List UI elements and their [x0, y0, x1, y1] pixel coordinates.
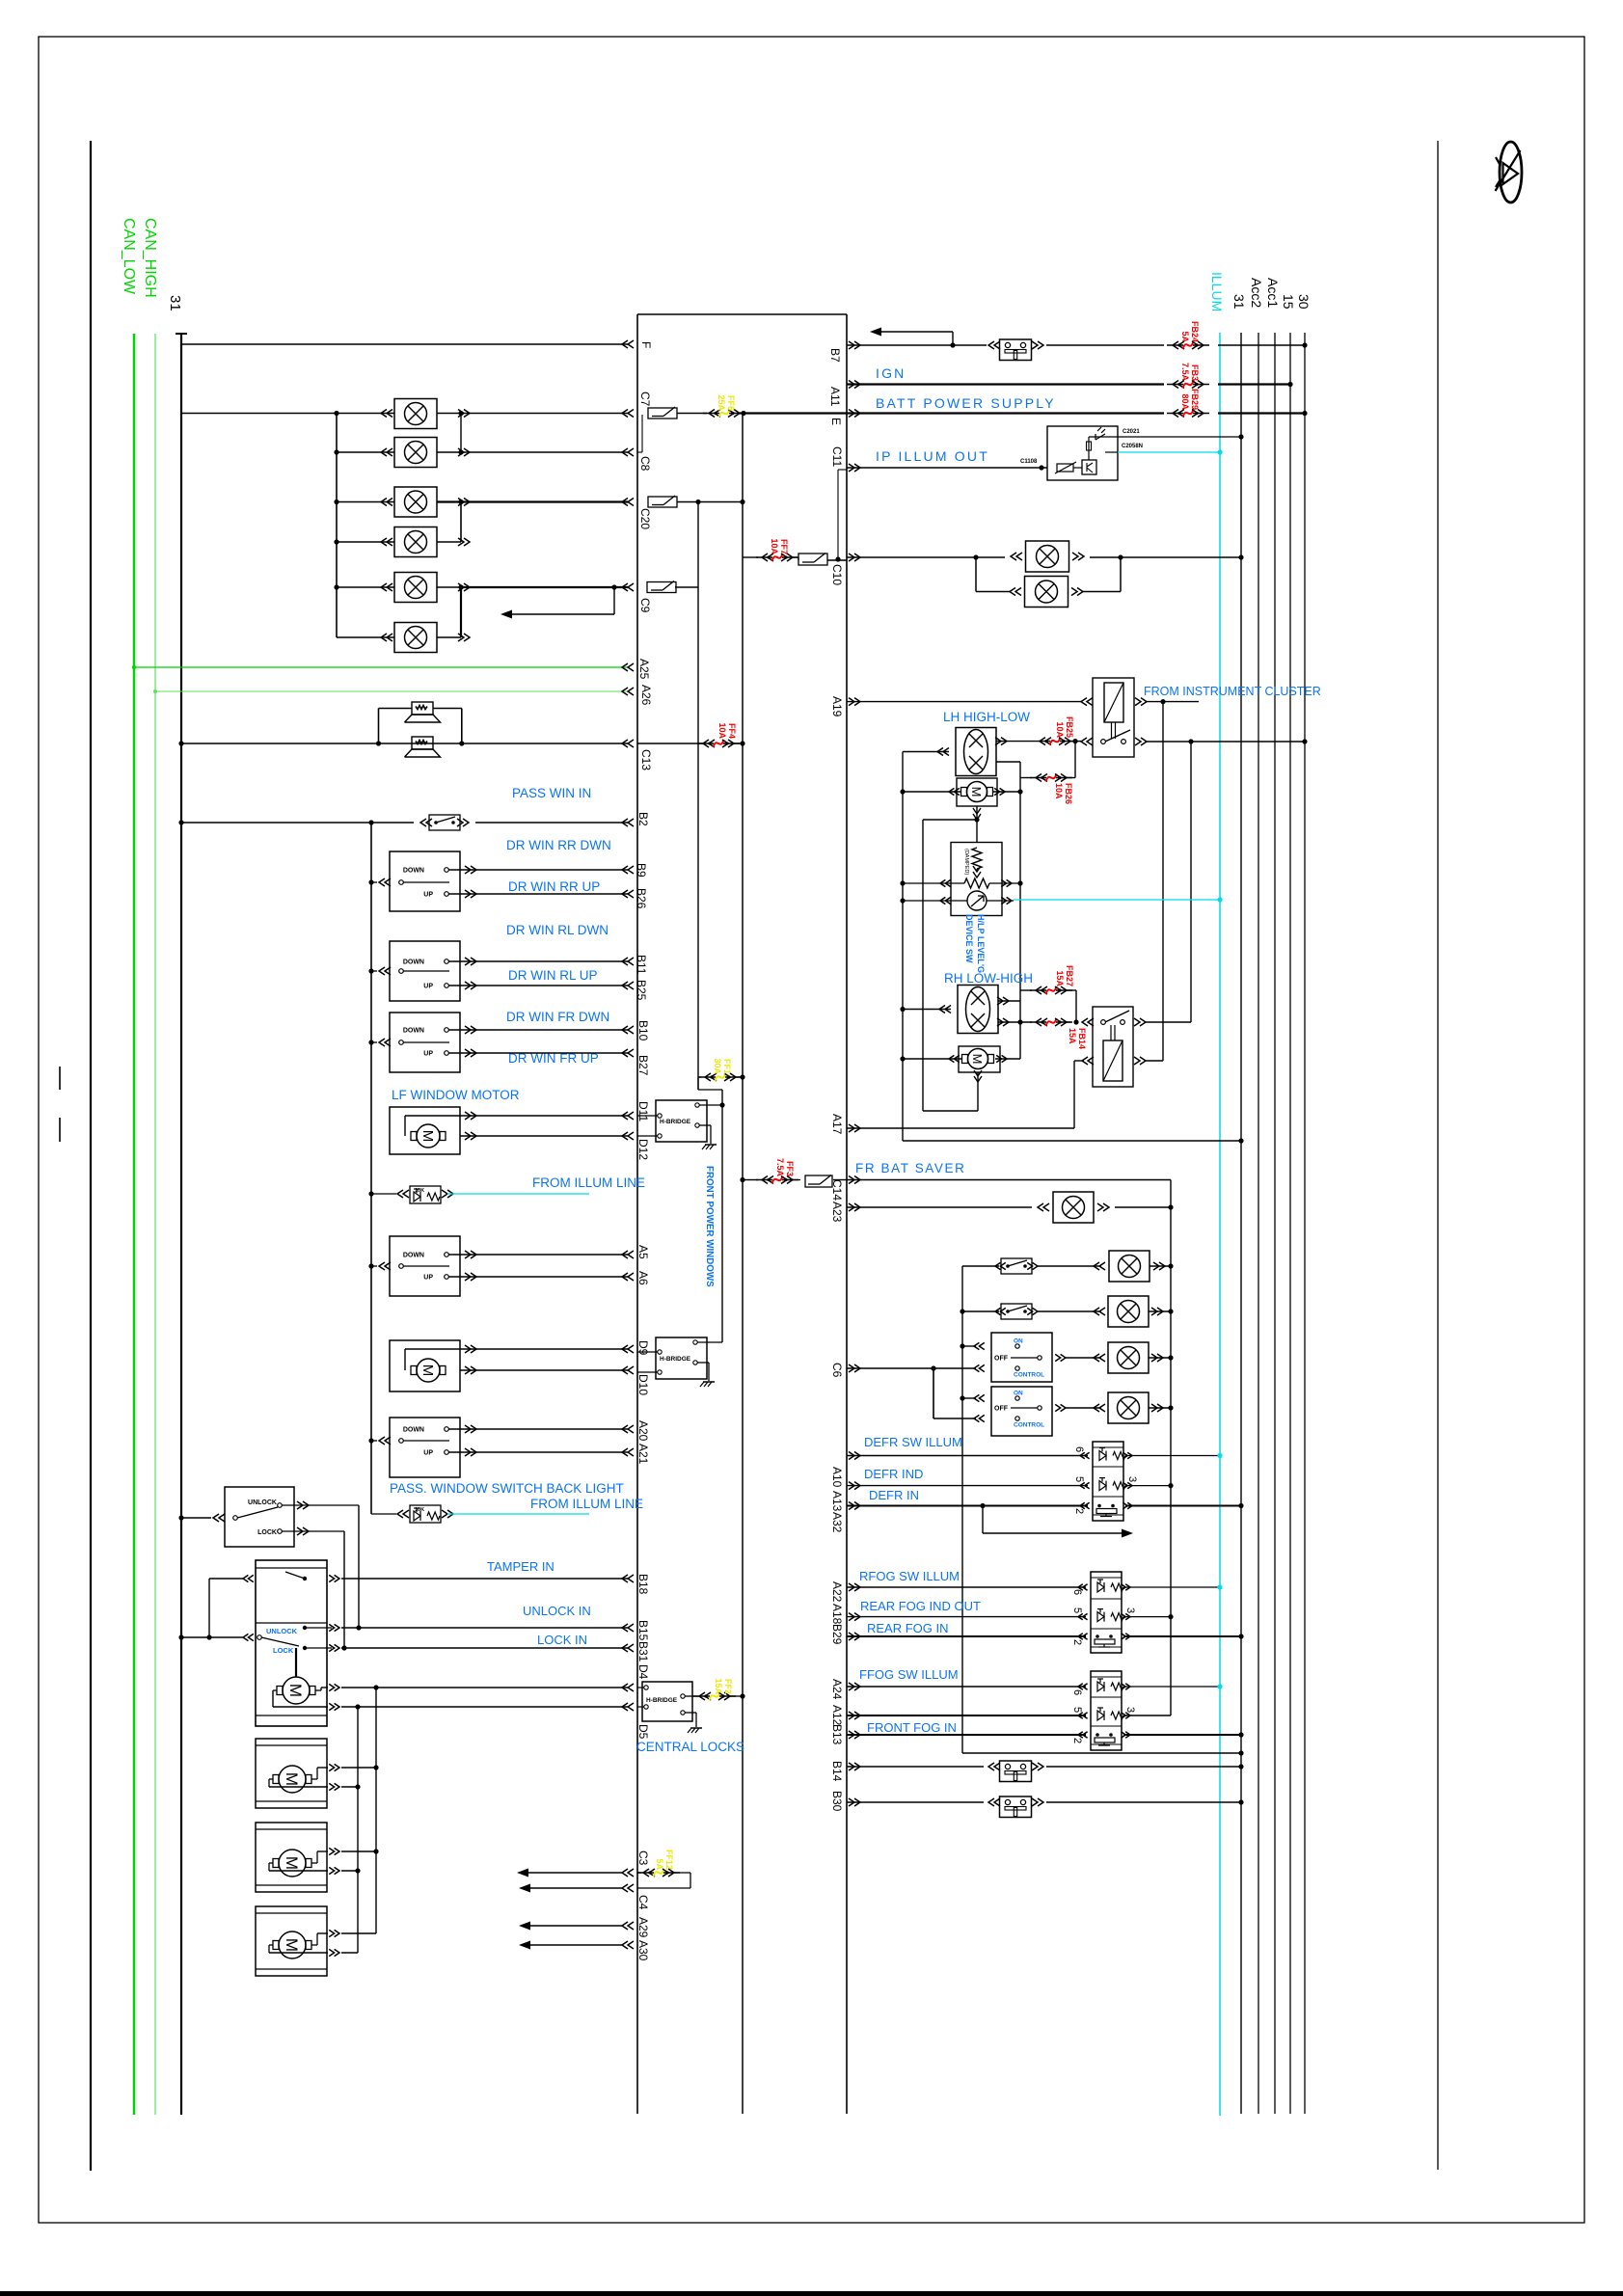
svg-text:RFOG SW ILLUM: RFOG SW ILLUM [859, 1569, 960, 1583]
fuse FF2 15A [685, 1695, 698, 1697]
BCM body controller box [637, 313, 847, 315]
wire C13 chime row [181, 743, 628, 744]
pin B18 [622, 1575, 634, 1582]
wire switch feed bus x998 [961, 1266, 963, 1753]
wire A23 row [847, 1206, 1032, 1208]
wire switch feed bus to 31 [962, 1752, 1241, 1754]
wire A19 row [847, 701, 1081, 703]
svg-text:10A: 10A [1054, 783, 1064, 799]
svg-text:A32: A32 [830, 1512, 844, 1533]
wire C9 to pin [461, 586, 628, 588]
svg-text:15A: 15A [714, 1678, 723, 1694]
relay LH headlamp box [1093, 678, 1134, 757]
switch FR common [379, 1039, 391, 1046]
svg-text:TAMPER IN: TAMPER IN [487, 1559, 555, 1574]
chime loop wires [379, 708, 413, 710]
wire C4 arrow to other sheet [527, 1887, 622, 1889]
svg-text:FRONT FOG IN: FRONT FOG IN [867, 1720, 957, 1735]
svg-text:M: M [419, 1130, 436, 1143]
svg-text:FF12: FF12 [664, 1850, 674, 1870]
svg-text:31: 31 [1231, 294, 1247, 310]
wire B10 row [448, 1029, 628, 1031]
wire A24 out to ILLUM [1123, 1686, 1220, 1688]
wire leveling return left [923, 819, 977, 821]
ILLUM bus wire [1219, 333, 1221, 2116]
svg-text:A22: A22 [830, 1581, 844, 1603]
wire to pass backlight resistor [371, 1513, 396, 1515]
svg-text:A25: A25 [637, 659, 651, 680]
wire B30 row [847, 1801, 984, 1803]
svg-text:B25: B25 [635, 980, 648, 1001]
pin B31 [622, 1644, 634, 1652]
wire A12 row [847, 1715, 1086, 1716]
svg-text:LOCK: LOCK [257, 1529, 277, 1536]
wire A32 out to 31 [1125, 1505, 1241, 1507]
leveling potentiometer [964, 878, 989, 888]
wire H-bridge supply vertical [721, 1090, 723, 1342]
svg-text:M: M [286, 1684, 305, 1697]
pin D9 [622, 1345, 634, 1353]
wire A10 row (illum) [847, 1455, 1088, 1457]
svg-text:UP: UP [423, 1450, 433, 1457]
wire A20 row [448, 1428, 628, 1430]
svg-text:7.5A: 7.5A [1180, 363, 1190, 382]
wire lamp6 row [337, 636, 394, 638]
H-bridge module front windows 2 [656, 1337, 707, 1379]
svg-text:C9: C9 [638, 598, 652, 613]
svg-text:10A: 10A [1055, 721, 1065, 738]
tamper switch contact [303, 1577, 307, 1580]
svg-text:30: 30 [1296, 294, 1312, 310]
wire A12 out to battery saver bus [1123, 1715, 1171, 1716]
svg-text:15A: 15A [1055, 970, 1065, 986]
wire A6 row [448, 1276, 628, 1278]
lock actuator motor link [295, 1648, 297, 1677]
svg-text:CONTROL: CONTROL [1014, 1372, 1044, 1379]
relay RH switch [1101, 1020, 1106, 1025]
svg-text:FFOG SW ILLUM: FFOG SW ILLUM [859, 1667, 959, 1682]
svg-text:FROM ILLUM LINE: FROM ILLUM LINE [532, 1175, 645, 1190]
svg-text:3: 3 [1126, 1476, 1138, 1482]
svg-text:REAR FOG IND OUT: REAR FOG IND OUT [860, 1599, 981, 1613]
svg-text:M: M [283, 1772, 301, 1786]
relay LH switch [1101, 740, 1106, 744]
switch door lock (driver) [225, 1487, 294, 1547]
svg-text:B2: B2 [636, 812, 650, 826]
headlamp leveling switch box [951, 843, 1002, 916]
wire D12 row [460, 1135, 628, 1137]
wire A5 row [448, 1254, 628, 1256]
wire lamp jumper bus x349 [336, 414, 338, 638]
lamp courtesy 1 [394, 399, 437, 429]
wire node x478 C7-C8 [460, 414, 462, 453]
relay RH coil [1103, 1040, 1123, 1081]
wire B13 row [847, 1734, 1086, 1736]
svg-text:6: 6 [1071, 1689, 1083, 1695]
switch C7 door jamb [648, 408, 677, 419]
wire C20 node [677, 501, 743, 503]
wire B7 row [847, 344, 987, 346]
svg-text:5: 5 [1071, 1707, 1083, 1713]
motor lock actuator passenger [256, 1739, 327, 1808]
lamp courtesy 6 [394, 623, 437, 653]
svg-text:C2021: C2021 [1123, 429, 1140, 435]
svg-text:B30: B30 [830, 1791, 844, 1812]
CAN_HIGH bus wire [133, 334, 136, 2115]
fuse FB27 15A [1020, 989, 1032, 991]
svg-text:FB27: FB27 [1065, 965, 1074, 986]
svg-text:H-BRIDGE: H-BRIDGE [660, 1356, 691, 1363]
wire A32 row (switch) [847, 1505, 1088, 1507]
wire A13 out [1125, 1485, 1171, 1487]
switch defroster assembly [1093, 1442, 1123, 1521]
svg-text:M: M [419, 1364, 436, 1377]
wire H-bridge2 supply [697, 1341, 722, 1343]
lamp row4 [1108, 1392, 1149, 1423]
pin B10 [622, 1026, 634, 1034]
wire battery saver vertical x1214 [1170, 1180, 1172, 1716]
svg-text:H-BRIDGE: H-BRIDGE [646, 1697, 678, 1704]
svg-text:FB24: FB24 [1190, 321, 1200, 342]
wire C8 row [461, 451, 628, 453]
lamp row3 [1108, 1342, 1149, 1373]
svg-text:6: 6 [1073, 1446, 1085, 1452]
wire D11 row [460, 1115, 628, 1117]
wire row1 switch to lamp [1038, 1265, 1101, 1267]
svg-text:C2058N: C2058N [1122, 444, 1143, 449]
svg-text:FROM INSTRUMENT CLUSTER: FROM INSTRUMENT CLUSTER [1144, 685, 1321, 698]
wire row2 switch to lamp [1038, 1310, 1101, 1312]
svg-text:DOWN: DOWN [403, 868, 424, 875]
wire RH motor right [995, 1058, 1020, 1060]
svg-text:15: 15 [1281, 294, 1296, 310]
svg-text:FF1: FF1 [722, 1059, 732, 1074]
switch pass2 common [379, 1437, 391, 1445]
svg-text:UP: UP [423, 1275, 433, 1282]
svg-text:A26: A26 [639, 685, 653, 706]
svg-text:F: F [639, 341, 653, 348]
svg-text:C11: C11 [830, 446, 844, 467]
svg-text:M: M [970, 1054, 985, 1065]
svg-text:A30: A30 [636, 1940, 650, 1961]
svg-text:A12: A12 [830, 1705, 844, 1726]
svg-text:FB14: FB14 [1077, 1028, 1087, 1049]
wire C9 switch to vertical [675, 586, 698, 588]
svg-text:25A: 25A [717, 394, 726, 411]
svg-text:D10: D10 [636, 1374, 650, 1395]
svg-text:7.5A: 7.5A [775, 1158, 785, 1177]
chime buzzer 2 [412, 737, 433, 749]
svg-text:B13: B13 [830, 1724, 844, 1745]
fuse FB25 10A [1034, 741, 1050, 743]
svg-text:DEFR IND: DEFR IND [864, 1467, 923, 1481]
wire LH lamp left [937, 748, 949, 756]
switch C20 door jamb [648, 497, 677, 507]
svg-text:UNLOCK IN: UNLOCK IN [523, 1604, 591, 1618]
wire dimmer to 31 bus [1089, 436, 1241, 438]
wire A25 CAN_HIGH branch [134, 666, 628, 668]
svg-text:A10: A10 [830, 1467, 844, 1488]
svg-text:C14: C14 [830, 1179, 844, 1201]
wire ILLUM feed cyan (pass switch) [447, 1513, 589, 1515]
pin C20 [622, 499, 634, 506]
svg-text:A23: A23 [830, 1202, 844, 1223]
wire H-bridge1 supply [699, 1104, 722, 1106]
pin C3 [622, 1869, 634, 1877]
relay LH coil row [1081, 698, 1093, 706]
wire LH switch out to 30 bus [1147, 741, 1305, 743]
switch pass window inhibit [429, 815, 460, 830]
lamp courtesy 2 [394, 438, 437, 468]
jumper C11-C10 inside box [837, 470, 839, 557]
wire lamp4 row [337, 541, 394, 543]
wire C11 row [847, 467, 1047, 469]
wire RH motor left [903, 1058, 962, 1060]
switch lamp control 2 (ON/OFF/CONTROL) [991, 1387, 1052, 1436]
wire LH coil out [1147, 701, 1199, 703]
wire RH lamp left [939, 1006, 951, 1013]
leveling damper resistor [972, 848, 982, 869]
svg-text:PASS WIN IN: PASS WIN IN [512, 786, 591, 800]
inner margin line right [1437, 141, 1439, 2170]
switch RL common [379, 967, 391, 975]
wire C7 row from ground bus [181, 413, 394, 415]
wire row3 lamp to bus [1149, 1357, 1171, 1359]
svg-text:UNLOCK: UNLOCK [248, 1499, 277, 1506]
relay RH coil row [1082, 1057, 1094, 1065]
wire LH high filament [996, 741, 1034, 743]
pin D4 [622, 1684, 634, 1691]
lamp row2 [1108, 1296, 1149, 1327]
pin B2 [622, 819, 634, 826]
svg-text:B31: B31 [636, 1641, 650, 1662]
switch pass window (A5/A6) [390, 1236, 460, 1296]
svg-text:D5: D5 [636, 1724, 650, 1740]
wire E node vertical [742, 414, 744, 2115]
dimmer internal link [1088, 437, 1090, 460]
wire A22 out to ILLUM [1123, 1586, 1220, 1588]
switch pass common [379, 1262, 391, 1270]
wire lamp2 row [337, 451, 394, 453]
scan edge bar at bottom [0, 2291, 1623, 2296]
wire C10 row [847, 556, 1005, 558]
wire B15 row [329, 1624, 339, 1631]
switch front fog assembly [1091, 1671, 1122, 1750]
svg-text:5A: 5A [1180, 331, 1190, 342]
dimmer rheostat [1057, 464, 1073, 472]
switch pass window 2 (A20/A21) [390, 1418, 460, 1477]
wire RH coil right [1146, 1060, 1163, 1062]
pin B9 [622, 866, 634, 874]
svg-text:DR WIN FR DWN: DR WIN FR DWN [506, 1010, 609, 1024]
svg-text:2: 2 [1071, 1738, 1083, 1743]
svg-text:LF WINDOW MOTOR: LF WINDOW MOTOR [392, 1088, 520, 1102]
lamp courtesy 5 [394, 573, 437, 603]
fuse FF1 30A row [698, 1076, 701, 1078]
wire LH motor bottom [973, 808, 981, 820]
pin D10 [622, 1366, 634, 1374]
wire row2 left [962, 1310, 999, 1312]
svg-text:A5: A5 [636, 1245, 650, 1259]
svg-text:B18: B18 [636, 1574, 650, 1595]
ground bus 31 left [176, 333, 187, 335]
svg-text:C8: C8 [638, 456, 652, 472]
wire B26 row [448, 893, 628, 895]
svg-text:B11: B11 [635, 955, 648, 975]
svg-text:FR BAT SAVER: FR BAT SAVER [855, 1161, 965, 1175]
svg-text:H/LP LEVEL'G: H/LP LEVEL'G [976, 914, 986, 973]
svg-text:A13: A13 [830, 1491, 844, 1512]
fuse FF4 10A [697, 743, 714, 744]
svg-text:M: M [283, 1856, 301, 1870]
wire lock bus D4 side [375, 1688, 377, 1933]
fuse FF7 10A row [743, 556, 758, 558]
svg-text:FROM ILLUM LINE: FROM ILLUM LINE [530, 1497, 643, 1511]
svg-text:C20: C20 [638, 508, 652, 529]
motor LF window [390, 1107, 460, 1154]
svg-text:C7: C7 [638, 392, 652, 407]
CAN_LOW bus wire [154, 334, 156, 2115]
wire sw2 ON feed [962, 1397, 976, 1399]
wire sw1 OFF to lamp [1066, 1357, 1101, 1359]
ground H-bridge1 [699, 1124, 711, 1126]
wire row1 lamp to bus [1150, 1265, 1171, 1267]
svg-text:B14: B14 [830, 1761, 844, 1782]
lock actuator assembly (driver door) [256, 1560, 327, 1726]
wire LH motor right [993, 791, 1020, 793]
resistor window switch backlight [410, 1186, 441, 1203]
svg-text:A19: A19 [830, 696, 844, 717]
wire LH motor left [903, 791, 960, 793]
leveling wiper [967, 891, 987, 910]
svg-text:DOWN: DOWN [403, 1253, 424, 1259]
pin B15 [622, 1624, 634, 1632]
svg-text:A24: A24 [830, 1679, 844, 1700]
lamp courtesy 3 [394, 487, 437, 517]
svg-text:80A: 80A [1180, 393, 1190, 410]
wire B13 out to 31 [1123, 1734, 1241, 1736]
Chery logo [1496, 142, 1523, 203]
wire C20 row lamps [337, 501, 394, 503]
dimmer photo sensor [1096, 427, 1105, 440]
wire RH high filament to FB27 [998, 1000, 1020, 1002]
svg-text:IP ILLUM OUT: IP ILLUM OUT [876, 448, 989, 464]
svg-text:DOWN: DOWN [403, 1427, 424, 1434]
connector pair B7 [1000, 339, 1032, 361]
svg-text:B9: B9 [635, 863, 648, 878]
wire B7 branch arrow [950, 342, 955, 347]
wire LH low filament [996, 761, 1020, 763]
svg-text:10A: 10A [770, 538, 779, 554]
pin A21 [622, 1448, 634, 1456]
wire RH low filament [998, 1021, 1032, 1023]
fuse FB14 15A [1030, 1021, 1046, 1023]
svg-text:B27: B27 [636, 1055, 650, 1076]
wire headlamp ground bus x936 [902, 752, 904, 1142]
wire node x478 C20 [460, 502, 462, 543]
wire lock switch common [181, 1517, 211, 1519]
svg-text:10A: 10A [717, 722, 727, 739]
wire node x478 C9 [460, 587, 462, 637]
motor LH leveling [957, 778, 997, 806]
wire B11 row [448, 960, 628, 962]
lamp courtesy 4 [394, 527, 437, 557]
wire lock motor 4 to bus [341, 1932, 376, 1934]
wire tamper to common [209, 1578, 243, 1580]
dimmer transistor [1082, 460, 1096, 474]
wire lock motor 2 to bus [341, 1767, 376, 1769]
svg-text:6: 6 [1071, 1589, 1083, 1595]
lamp glovebox 1 [1026, 541, 1069, 572]
svg-text:Acc1: Acc1 [1265, 278, 1281, 308]
svg-text:5A: 5A [655, 1858, 664, 1870]
wire coil link vertical x1206 [1162, 702, 1164, 1061]
wire window switch feed bus x385 [370, 823, 372, 1514]
svg-text:FF7: FF7 [779, 539, 789, 554]
svg-text:C1108: C1108 [1020, 459, 1038, 465]
wire lock actuator common [181, 1636, 243, 1638]
pin A30 [622, 1941, 634, 1949]
pin C4 [622, 1884, 634, 1892]
wire C3 arrow to other sheet [526, 1872, 622, 1874]
wire sw1 ON feed [962, 1345, 976, 1347]
lamp row1 [1109, 1251, 1150, 1282]
svg-text:DR WIN RR DWN: DR WIN RR DWN [506, 838, 611, 852]
svg-text:IGN: IGN [876, 365, 906, 381]
chime buzzer 1 [412, 702, 433, 715]
wire A29 arrow to other sheet [527, 1925, 622, 1927]
relay RH headlamp box [1093, 1007, 1133, 1087]
switch C10 jamb [798, 554, 827, 565]
svg-text:FF2: FF2 [723, 1679, 733, 1694]
svg-text:UP: UP [423, 984, 433, 990]
pin D5 [622, 1703, 634, 1711]
headlamp RH [958, 986, 998, 1034]
svg-text:3: 3 [1124, 1707, 1136, 1713]
wire A30 arrow to other sheet [527, 1944, 622, 1946]
svg-text:A29: A29 [636, 1917, 650, 1938]
pin A6 [622, 1273, 634, 1281]
wire A10 out to ILLUM [1125, 1455, 1220, 1457]
wire pot left [903, 882, 964, 884]
wire E BATT row [847, 412, 1164, 414]
switch RR common [379, 878, 391, 886]
connector pair B14 [1000, 1761, 1032, 1782]
wire lock motor 3 to bus [341, 1850, 376, 1852]
svg-text:C4: C4 [636, 1895, 650, 1910]
svg-text:M: M [283, 1938, 301, 1952]
wire lamp parallel loop C10 [973, 554, 978, 559]
svg-text:C3: C3 [636, 1850, 650, 1866]
dimmer module box [1047, 426, 1118, 480]
svg-text:Acc2: Acc2 [1249, 278, 1264, 308]
wire RH coil left to A17 [1074, 1060, 1084, 1062]
svg-text:ILLUM: ILLUM [1209, 272, 1225, 311]
motor lock actuator rear left [256, 1823, 327, 1892]
fuse FF3 7.5A [743, 1179, 758, 1181]
svg-text:(DAMPED): (DAMPED) [963, 849, 969, 875]
wire C6 row [847, 1367, 976, 1369]
wire F row [181, 343, 628, 345]
svg-text:OFF: OFF [994, 1356, 1009, 1363]
svg-text:B26: B26 [635, 888, 648, 909]
pin C9 [622, 583, 634, 591]
pin C13 [622, 740, 634, 747]
fuse FF6 25A [703, 413, 719, 415]
wire dimmer ILLUM out cyan [1105, 451, 1118, 453]
wire switch link vertical x1235 [1190, 742, 1192, 1022]
wire A13 row (indicator) [847, 1485, 1088, 1487]
